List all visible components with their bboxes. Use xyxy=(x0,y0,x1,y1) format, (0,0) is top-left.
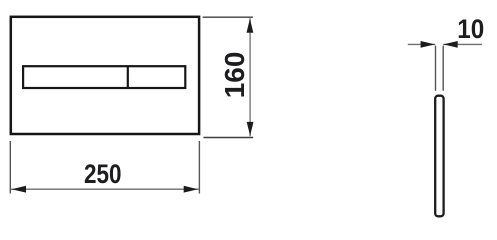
extension line top (160 dim) xyxy=(203,16,253,18)
svg-text:250: 250 xyxy=(84,159,122,189)
arrow right (250 dim) xyxy=(184,186,198,193)
extension line right (10 dim) xyxy=(442,46,444,91)
dimension line 160 xyxy=(249,18,251,136)
extension line right (250 dim) xyxy=(198,141,200,194)
extension line left (250 dim) xyxy=(9,141,11,194)
arrow pointing right (10 dim left) xyxy=(421,41,435,48)
front view: outer plate rectangle xyxy=(11,17,199,134)
dimension line 10 (right segment) xyxy=(443,43,482,45)
svg-text:10: 10 xyxy=(457,14,484,44)
side view: plate profile capsule xyxy=(435,96,443,217)
dimension line 250 xyxy=(11,188,199,190)
extension line left (10 dim) xyxy=(435,46,437,91)
front view: button recess rectangle xyxy=(23,66,185,88)
arrow up (160 dim) xyxy=(247,19,254,33)
arrow left (250 dim) xyxy=(12,186,26,193)
extension line bottom (160 dim) xyxy=(204,137,254,139)
arrow down (160 dim) xyxy=(247,122,254,136)
front view: button divider line xyxy=(127,66,129,88)
svg-text:160: 160 xyxy=(219,52,250,99)
arrow pointing left (10 dim right) xyxy=(443,41,457,48)
dimension line 10 (left segment) xyxy=(408,43,435,45)
